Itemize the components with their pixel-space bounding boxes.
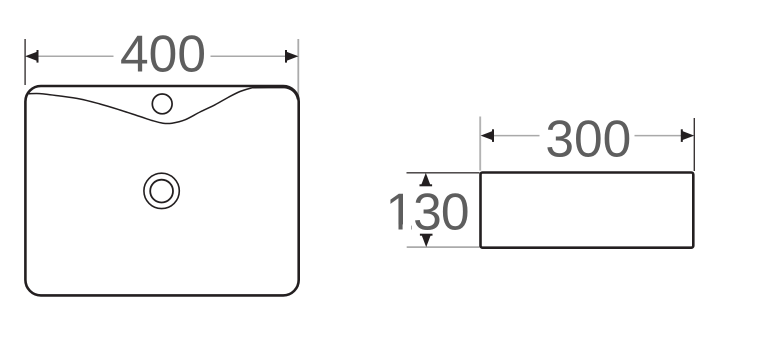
dim 400 extension line right: [297, 39, 299, 99]
svg-text:400: 400: [120, 25, 206, 83]
dim 300 extension line left: [479, 117, 481, 171]
dim 400 line left segment: [38, 55, 114, 57]
dim 400 extension line left: [24, 39, 26, 85]
side view outline: [481, 173, 694, 248]
dim 300 extension line right: [693, 118, 695, 171]
basin inner rim curve: [29, 88, 298, 124]
drain inner circle: [150, 180, 173, 203]
svg-text:130: 130: [386, 182, 469, 240]
dim 300 line right segment: [635, 135, 683, 137]
svg-text:300: 300: [545, 110, 631, 168]
dim 130 extension line bottom: [407, 246, 480, 248]
dim 400 arrow left: [25, 50, 38, 63]
dim 300 arrow right: [681, 129, 694, 142]
basin top view outline: [25, 86, 298, 295]
drain outer circle: [144, 173, 179, 208]
dim 130 extension line top: [407, 172, 480, 174]
dim 130 arrow down: [420, 234, 433, 247]
dim 300 line left segment: [493, 135, 540, 137]
faucet hole: [152, 94, 172, 114]
dim 400 line right segment: [211, 55, 287, 57]
dim 400 arrow right: [285, 50, 298, 63]
dim 130 arrow up: [420, 173, 433, 186]
dim 300 arrow left: [481, 129, 494, 142]
